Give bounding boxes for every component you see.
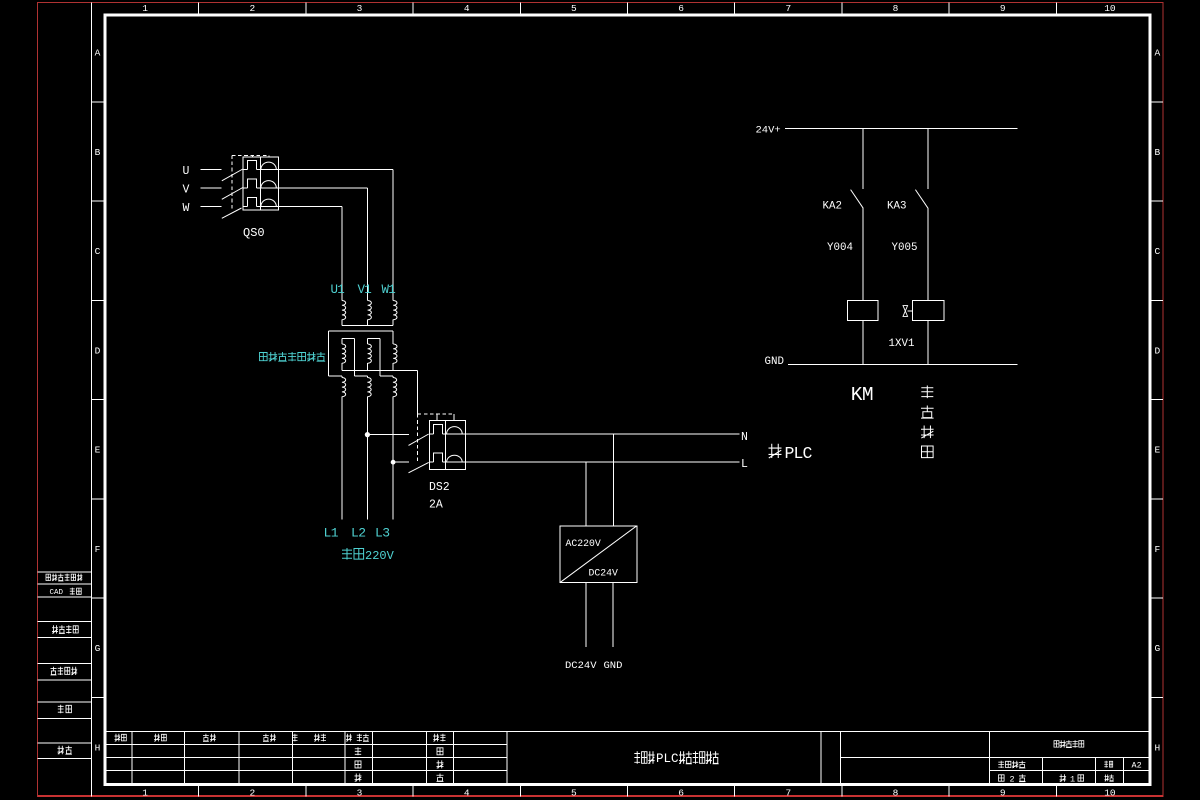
wire N to PLC (465, 433, 739, 435)
contact label KA3 (887, 201, 906, 213)
svg-text:W: W (183, 202, 190, 215)
svg-text:V1: V1 (358, 283, 372, 297)
svg-text:1: 1 (142, 3, 148, 14)
svg-text:10: 10 (1104, 788, 1116, 799)
power rail 24V+ wire (785, 128, 1018, 130)
svg-text:D: D (95, 345, 101, 356)
svg-text:6: 6 (678, 788, 684, 799)
breaker rating label 2A (429, 499, 443, 512)
breaker DS2 fuse elements (430, 424, 466, 462)
transformer primary coil 2 (368, 301, 372, 320)
svg-text:GND: GND (765, 356, 784, 368)
node label L (741, 458, 748, 471)
contactor label KM (851, 384, 873, 406)
svg-text:5: 5 (571, 788, 577, 799)
svg-text:U: U (183, 165, 190, 178)
PLC output label Y005 (892, 242, 918, 254)
svg-text:F: F (1154, 544, 1160, 555)
wire KM coil to GND rail (862, 321, 864, 365)
svg-text:B: B (95, 147, 101, 158)
ground rail GND wire (788, 364, 1017, 366)
switch QS0 linkage dashed line (232, 155, 269, 211)
svg-text:D: D (1154, 345, 1160, 356)
svg-text:E: E (1154, 445, 1160, 456)
label gong 2 ye (999, 774, 1026, 784)
ruler zone tick marks left and right (92, 102, 1164, 698)
wire W lead (201, 206, 222, 208)
svg-text:9: 9 (1000, 3, 1006, 14)
wire V lead (201, 187, 222, 189)
svg-text:N: N (741, 431, 748, 444)
left management strip box lines (38, 572, 92, 759)
svg-text:2: 2 (249, 788, 255, 799)
transformer secondary loop 2 (368, 338, 393, 376)
transformer primary coil 1 (342, 301, 346, 320)
svg-text:A2: A2 (1132, 761, 1142, 771)
wire KA3 to valve coil (927, 208, 929, 300)
svg-text:10: 10 (1104, 3, 1116, 14)
svg-text:E: E (95, 445, 101, 456)
svg-text:1XV1: 1XV1 (889, 338, 915, 350)
ruler zone letters A-H left and right (95, 48, 1161, 754)
switch QS0 blade W (222, 208, 242, 218)
transformer primary coil 3 (393, 301, 397, 320)
transformer tertiary coil 2 and wire L2 (367, 376, 371, 520)
svg-text:DS2: DS2 (429, 481, 450, 494)
svg-text:QS0: QS0 (243, 226, 265, 240)
svg-text:L: L (741, 458, 748, 471)
contact KA3 blade (915, 190, 928, 209)
wire valve coil to GND rail (927, 321, 929, 365)
transformer core box outline (329, 331, 394, 376)
label tu-hao (1105, 775, 1114, 782)
vertical label qie-duan-kong-zhi (921, 386, 934, 458)
power supply label AC220V (566, 538, 601, 549)
transformer secondary loop 3 (393, 331, 397, 370)
svg-text:4: 4 (464, 3, 470, 14)
wire L to PLC (465, 461, 739, 463)
svg-text:KA3: KA3 (887, 201, 906, 213)
svg-text:AC220V: AC220V (566, 538, 601, 549)
svg-text:9: 9 (1000, 788, 1006, 799)
power supply AC220V/DC24V box (560, 526, 637, 583)
contactor coil KM box (848, 301, 878, 321)
ground rail label GND (765, 356, 784, 368)
phase label L3 cyan (375, 526, 390, 541)
svg-text:KM: KM (851, 384, 873, 406)
label xiang-mu-bian-hao (998, 761, 1025, 768)
junction node on L3 wire (391, 460, 396, 465)
svg-text:G: G (1154, 643, 1160, 654)
transformer label san-xiang-gan-shi-bian-ya-qi (260, 352, 326, 361)
strip label jiu-di-tu-hao (51, 667, 78, 675)
wire V phase to transformer (278, 188, 367, 301)
svg-text:2: 2 (249, 3, 255, 14)
strip label jie-yong-jian-deng-ji (46, 574, 82, 581)
strip label CAD bian-hao (50, 588, 82, 598)
title block sign column glyphs (355, 747, 362, 781)
switch QS0 blade U (222, 169, 243, 181)
terminal label DC24V (565, 660, 597, 672)
wire L drop to power supply (585, 462, 587, 526)
svg-text:CAD: CAD (50, 589, 64, 597)
node label U1 cyan (331, 283, 345, 297)
svg-text:3: 3 (357, 788, 363, 799)
drawing title rao-xian-ji PLC kong-zhi-xi-tong-she-ji (634, 751, 718, 766)
transformer tertiary coil 3 and wire L3 (393, 376, 397, 520)
node label W1 cyan (382, 283, 396, 297)
label di 1 ye (1060, 774, 1084, 784)
breaker DS2 blade pole 2 (409, 462, 429, 472)
svg-text:GND: GND (604, 660, 623, 672)
label dao PLC (769, 444, 813, 463)
svg-text:5: 5 (571, 3, 577, 14)
power supply label DC24V (589, 568, 619, 579)
svg-text:A: A (1154, 48, 1160, 59)
phase input label W (183, 202, 190, 215)
svg-text:KA2: KA2 (823, 201, 842, 213)
title block left table grid (107, 731, 1149, 783)
node label N (741, 431, 748, 444)
wire DC24V output (585, 583, 587, 648)
svg-text:L1: L1 (324, 526, 339, 541)
svg-text:8: 8 (893, 788, 899, 799)
svg-text:L2: L2 (351, 526, 366, 541)
transformer secondary loop 1 (342, 338, 368, 376)
svg-text:B: B (1154, 147, 1160, 158)
breaker reference label DS2 (429, 481, 450, 494)
zone-band divider line (left edge of zone column) (91, 3, 93, 797)
wire U lead (201, 169, 222, 171)
svg-text:220V: 220V (365, 549, 395, 563)
label san-xiang 220V cyan (342, 548, 395, 563)
svg-text:6: 6 (678, 3, 684, 14)
svg-text:4: 4 (464, 788, 470, 799)
power rail label 24V+ (756, 125, 781, 137)
svg-text:7: 7 (785, 3, 791, 14)
solenoid valve 1XV1 box (912, 301, 944, 321)
title block right section grid (821, 731, 1149, 783)
svg-text:G: G (95, 643, 101, 654)
svg-text:A: A (95, 48, 101, 59)
node label V1 cyan (358, 283, 372, 297)
svg-text:1: 1 (142, 788, 148, 799)
ruler zone tick marks top and bottom (199, 3, 1057, 797)
breaker DS2 linkage dashed line (418, 414, 454, 463)
svg-text:L3: L3 (375, 526, 390, 541)
phase input label U (183, 165, 190, 178)
strip label ri-qi (58, 746, 72, 754)
breaker DS2 fuse box (430, 420, 466, 469)
title block header row small labels (115, 734, 369, 742)
svg-text:W1: W1 (382, 283, 396, 297)
svg-text:7: 7 (785, 788, 791, 799)
svg-text:Y005: Y005 (892, 242, 918, 254)
label bi-li (1104, 761, 1112, 768)
junction node on L2 wire (365, 432, 370, 437)
wire U phase to transformer (278, 170, 393, 301)
wire branch KA3 upper (927, 129, 929, 190)
contact label KA2 (823, 201, 842, 213)
strip label di-tu-zong-hao (52, 625, 78, 633)
svg-text:PLC: PLC (656, 752, 679, 766)
transformer primary star bar (342, 320, 393, 326)
title block approve column glyphs (433, 734, 445, 782)
PLC output label Y004 (827, 242, 853, 254)
sheet name ji-dian-qi-shu-chu (1054, 740, 1084, 747)
label sheet size A2 (1132, 761, 1142, 771)
switch QS0 fuse elements (243, 161, 279, 207)
svg-text:1: 1 (1070, 774, 1075, 784)
wire branch KA2 upper (862, 129, 864, 190)
solenoid valve pilot symbol (903, 306, 912, 317)
svg-text:DC24V: DC24V (565, 660, 597, 672)
breaker DS2 blade pole 1 (409, 434, 429, 445)
switch QS0 blade V (222, 188, 243, 200)
switch QS0 reference label (243, 226, 265, 240)
switch QS0 fuse box (243, 157, 279, 210)
strip label qian-ming (58, 705, 72, 713)
transformer secondary collector wire (342, 370, 418, 414)
terminal label GND (604, 660, 623, 672)
svg-text:3: 3 (357, 3, 363, 14)
svg-text:2: 2 (1010, 774, 1015, 784)
svg-text:C: C (1154, 246, 1160, 257)
phase label L2 cyan (351, 526, 366, 541)
svg-text:H: H (95, 742, 101, 753)
wire GND output (612, 583, 614, 648)
wire L3 tap to DS2 (393, 461, 409, 463)
transformer tertiary coil 1 and wire L1 (342, 376, 346, 520)
svg-text:DC24V: DC24V (589, 568, 619, 579)
wire N drop to power supply (613, 434, 615, 526)
phase label L1 cyan (324, 526, 339, 541)
contact KA2 blade (851, 190, 864, 209)
svg-text:C: C (95, 246, 101, 257)
svg-text:24V+: 24V+ (756, 125, 781, 137)
wire KA2 to KM coil (862, 208, 864, 300)
svg-text:H: H (1154, 742, 1160, 753)
svg-text:F: F (95, 544, 101, 555)
wire L2 tap to DS2 (367, 434, 408, 436)
svg-text:2A: 2A (429, 499, 443, 512)
svg-text:Y004: Y004 (827, 242, 853, 254)
svg-text:U1: U1 (331, 283, 345, 297)
svg-text:PLC: PLC (785, 444, 813, 463)
phase input label V (183, 184, 190, 197)
valve reference label 1XV1 (889, 338, 915, 350)
svg-text:V: V (183, 184, 190, 197)
wire W phase to transformer (278, 207, 342, 301)
svg-text:8: 8 (893, 3, 899, 14)
